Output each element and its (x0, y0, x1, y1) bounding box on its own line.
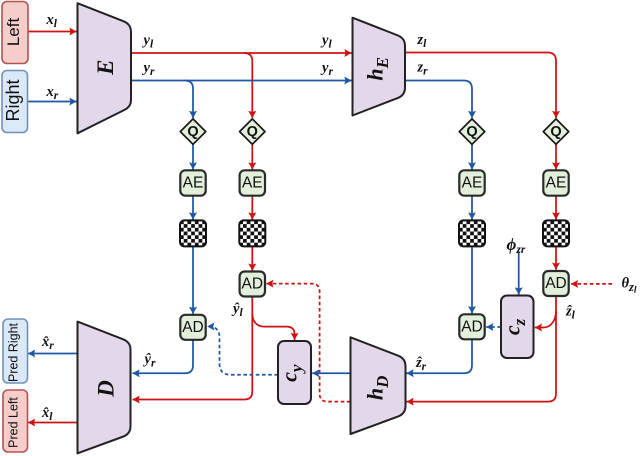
svg-text:D: D (93, 380, 118, 398)
svg-text:AD: AD (242, 276, 264, 293)
svg-text:ŷl: ŷl (231, 301, 243, 319)
svg-text:Q: Q (466, 124, 477, 140)
svg-text:Right: Right (3, 79, 23, 121)
svg-text:AD: AD (545, 275, 567, 292)
svg-text:x̂l: x̂l (41, 405, 53, 423)
svg-text:Q: Q (550, 124, 561, 140)
svg-text:Q: Q (247, 124, 258, 140)
svg-text:Pred Right: Pred Right (7, 322, 21, 382)
svg-text:ŷr: ŷr (143, 352, 156, 370)
svg-text:zr: zr (417, 60, 429, 78)
svg-text:AD: AD (182, 319, 204, 336)
svg-text:zl: zl (417, 32, 428, 50)
svg-text:ẑl: ẑl (565, 304, 576, 322)
svg-text:Q: Q (187, 124, 198, 140)
svg-text:yr: yr (142, 60, 155, 78)
svg-text:xl: xl (46, 12, 58, 30)
svg-text:Left: Left (4, 18, 23, 47)
svg-text:yl: yl (320, 33, 332, 51)
svg-text:ẑr: ẑr (415, 355, 427, 373)
svg-text:E: E (93, 60, 118, 76)
svg-text:x̂r: x̂r (41, 334, 54, 352)
svg-text:yr: yr (320, 60, 333, 78)
svg-text:AE: AE (462, 175, 483, 192)
svg-text:AE: AE (546, 175, 567, 192)
svg-text:Pred Left: Pred Left (7, 397, 21, 448)
svg-text:θzl: θzl (622, 276, 637, 296)
svg-text:AE: AE (242, 175, 263, 192)
svg-text:AD: AD (461, 318, 483, 335)
svg-text:xr: xr (46, 84, 59, 102)
svg-text:ϕzr: ϕzr (507, 235, 526, 256)
svg-text:AE: AE (183, 175, 204, 192)
svg-text:yl: yl (142, 33, 154, 51)
